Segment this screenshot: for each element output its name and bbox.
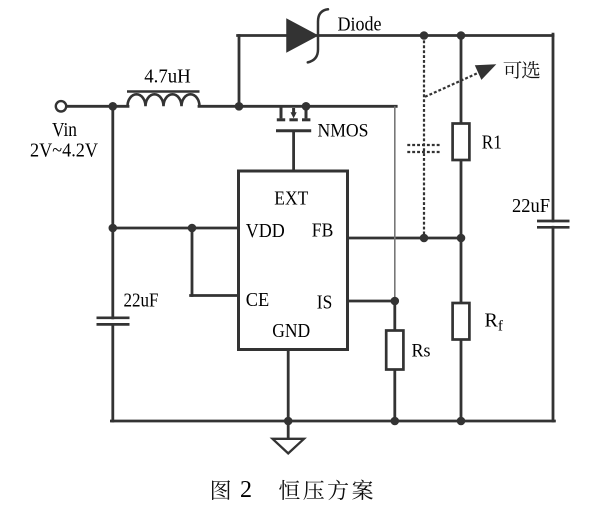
svg-text:Rs: Rs xyxy=(412,341,431,362)
svg-text:4.7uH: 4.7uH xyxy=(144,66,191,88)
svg-text:Vin: Vin xyxy=(52,119,77,141)
svg-text:R1: R1 xyxy=(482,131,502,153)
svg-text:IS: IS xyxy=(317,292,333,314)
svg-text:22uF: 22uF xyxy=(512,195,550,217)
svg-text:Diode: Diode xyxy=(338,13,382,35)
svg-text:VDD: VDD xyxy=(246,220,285,242)
svg-text:EXT: EXT xyxy=(274,188,308,210)
svg-text:FB: FB xyxy=(312,220,334,242)
svg-text:2V~4.2V: 2V~4.2V xyxy=(30,140,98,162)
svg-text:GND: GND xyxy=(272,320,310,342)
svg-text:NMOS: NMOS xyxy=(318,121,369,142)
svg-text:CE: CE xyxy=(246,289,269,311)
svg-text:22uF: 22uF xyxy=(124,290,159,312)
svg-text:2: 2 xyxy=(240,477,252,503)
